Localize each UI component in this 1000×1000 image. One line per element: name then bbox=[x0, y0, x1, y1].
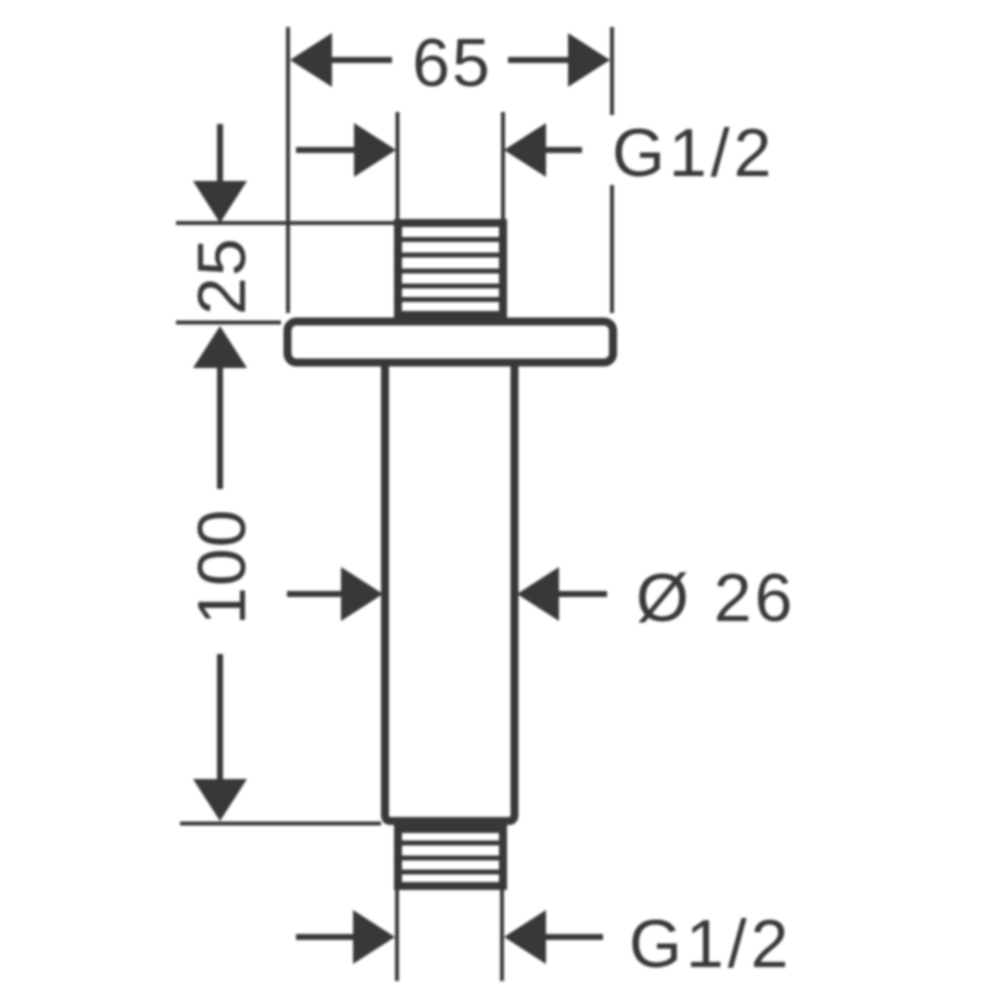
svg-text:65: 65 bbox=[412, 25, 492, 101]
svg-text:G1/2: G1/2 bbox=[629, 906, 792, 982]
svg-text:25: 25 bbox=[184, 237, 260, 315]
svg-text:Ø 26: Ø 26 bbox=[636, 560, 795, 636]
svg-text:G1/2: G1/2 bbox=[612, 115, 775, 191]
svg-text:100: 100 bbox=[184, 509, 260, 625]
